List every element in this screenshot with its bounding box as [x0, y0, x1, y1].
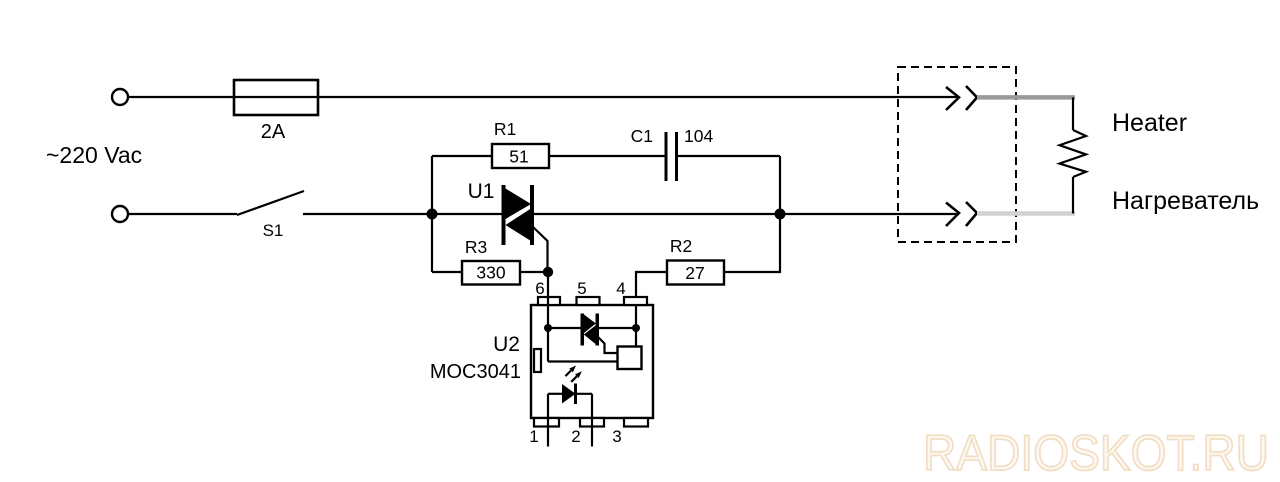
pin 5 bump	[577, 297, 600, 305]
svg-text:S1: S1	[263, 221, 284, 240]
triac U1	[468, 180, 534, 245]
svg-text:1: 1	[529, 427, 538, 446]
svg-text:3: 3	[612, 427, 621, 446]
svg-text:330: 330	[476, 263, 505, 283]
resistor R3 330	[462, 237, 520, 285]
node B junction	[775, 209, 786, 220]
pin 1 bump	[534, 418, 559, 427]
svg-text:U2: U2	[493, 333, 520, 356]
wire triac gate	[533, 227, 548, 272]
wire terminal to switch	[128, 213, 237, 215]
gray wire top	[977, 95, 1075, 100]
pin 3 bump	[624, 418, 648, 427]
svg-text:27: 27	[685, 263, 704, 283]
svg-text:Heater: Heater	[1112, 109, 1187, 137]
zero-crossing detector box	[618, 347, 642, 370]
connector bottom chevrons	[946, 202, 977, 226]
svg-text:51: 51	[509, 147, 528, 167]
svg-text:R1: R1	[494, 119, 516, 139]
node C junction	[543, 267, 553, 277]
pin 4 bump	[624, 297, 647, 305]
svg-text:Нагреватель: Нагреватель	[1112, 187, 1259, 215]
wire node B to bottom connector	[780, 213, 959, 215]
wire R2 right to node B	[724, 214, 780, 272]
wire to R1	[432, 155, 492, 157]
svg-text:U1: U1	[468, 180, 495, 203]
wire R1 to C1	[549, 155, 665, 157]
wire terminal to top connector	[128, 96, 959, 98]
wire pin 6 to box horizontal	[548, 360, 618, 362]
gray wire bottom	[977, 211, 1075, 216]
connector top chevrons	[946, 86, 977, 110]
heater resistor zigzag	[1060, 97, 1087, 213]
svg-text:104: 104	[684, 126, 713, 146]
svg-text:5: 5	[577, 279, 586, 298]
wire triac to node B	[533, 213, 780, 215]
wire pin 1 vertical	[547, 394, 549, 447]
wire pin 2 vertical	[591, 394, 593, 447]
optocoupler U2 MOC3041 body	[430, 305, 653, 418]
LED of U2	[548, 384, 592, 405]
wire C1 to right vertical	[678, 155, 780, 157]
svg-text:R3: R3	[465, 237, 487, 257]
resistor R1 51	[492, 119, 549, 168]
fuse F1 2A	[234, 80, 318, 143]
wire node A to R3	[432, 271, 462, 273]
terminal top-left	[112, 89, 128, 105]
svg-text:R2: R2	[670, 236, 692, 256]
wire left branch vertical	[431, 156, 433, 272]
svg-text:2A: 2A	[261, 121, 286, 143]
svg-text:4: 4	[616, 279, 625, 298]
internal triac of U2	[581, 314, 600, 346]
wire right branch vertical	[779, 156, 781, 214]
svg-text:RADIOSKOT.RU: RADIOSKOT.RU	[923, 425, 1269, 481]
capacitor C1 104	[631, 126, 714, 181]
wire pin 4 vertical	[635, 305, 637, 347]
node internal left	[544, 324, 552, 332]
terminal bottom-left	[112, 206, 128, 222]
left wall small rectangle	[534, 349, 541, 372]
wire switch to triac U1	[303, 213, 503, 215]
wire pin 6 vertical	[547, 272, 549, 362]
LED emission arrows	[565, 366, 581, 382]
node A junction	[427, 209, 438, 220]
switch S1	[237, 191, 304, 240]
svg-text:2: 2	[571, 427, 580, 446]
node internal right	[632, 324, 640, 332]
wire R3 to node C	[520, 271, 548, 273]
pin 2 bump	[580, 418, 604, 427]
wire internal gate to zero-cross box	[598, 337, 618, 353]
svg-text:~220 Vac: ~220 Vac	[46, 142, 142, 168]
svg-text:6: 6	[535, 279, 544, 298]
svg-text:MOC3041: MOC3041	[430, 361, 521, 383]
svg-text:C1: C1	[631, 126, 653, 146]
wire internal horizontal	[548, 327, 582, 329]
pin 6 bump	[538, 297, 560, 305]
wire R2 left to pin 4	[636, 272, 667, 305]
resistor R2 27	[667, 236, 724, 285]
connector dashed box	[898, 67, 1016, 242]
